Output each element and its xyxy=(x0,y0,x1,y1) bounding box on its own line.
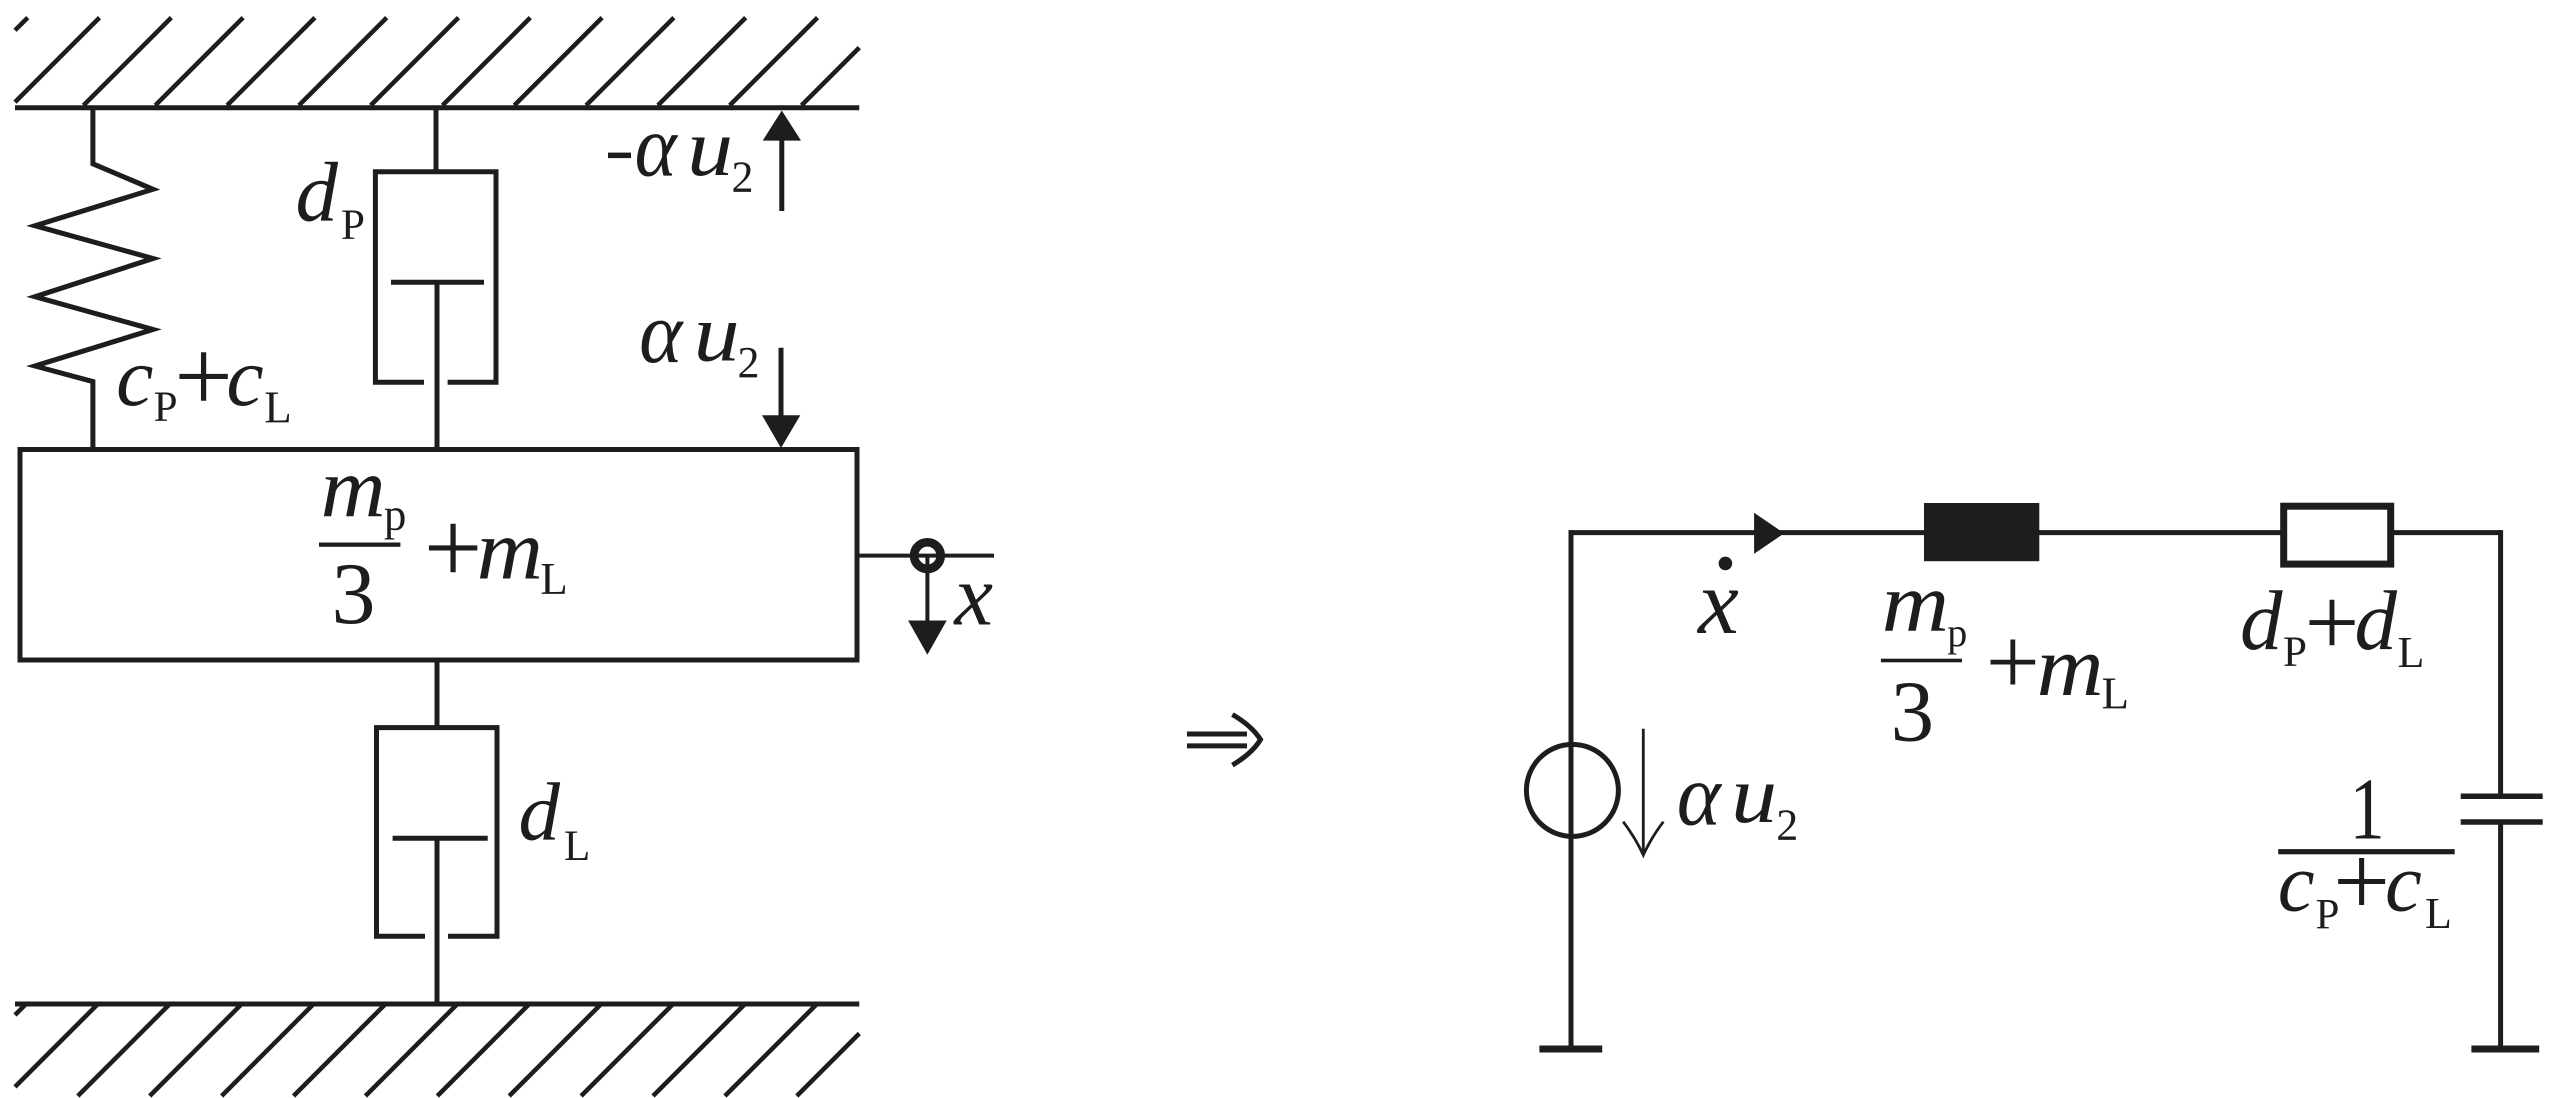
svg-text:u: u xyxy=(1731,749,1777,840)
svg-text:+: + xyxy=(2305,569,2360,676)
svg-text:d: d xyxy=(519,766,561,858)
label dL xyxy=(519,766,591,871)
label dP xyxy=(296,146,365,250)
capacitor 1/(cP+cL) xyxy=(2461,796,2543,822)
inductor mp/3+mL xyxy=(1924,503,2039,561)
svg-text:u: u xyxy=(694,287,740,378)
svg-text:x: x xyxy=(1696,551,1739,653)
svg-text:x: x xyxy=(952,547,993,644)
wire right vertical upper xyxy=(2498,530,2503,794)
svg-text:+: + xyxy=(424,491,483,606)
svg-text:L: L xyxy=(2102,668,2130,718)
svg-text:P: P xyxy=(2283,629,2307,676)
svg-text:m: m xyxy=(321,441,386,535)
wire top horizontal xyxy=(1569,530,2501,535)
resistor dP+dL xyxy=(2284,506,2391,564)
svg-text:2: 2 xyxy=(1776,801,1798,850)
floor wall xyxy=(15,1004,859,1096)
svg-text:3: 3 xyxy=(332,546,376,643)
label source alpha u2 xyxy=(1677,747,1799,849)
svg-text:+: + xyxy=(1986,608,2040,715)
damper dP xyxy=(375,108,496,451)
label cP+cL xyxy=(116,319,292,434)
wire left vertical xyxy=(1569,530,1574,1046)
svg-text:+: + xyxy=(174,319,233,434)
damper dL xyxy=(377,660,498,1004)
svg-text:c: c xyxy=(116,331,153,424)
svg-text:α: α xyxy=(639,285,684,382)
current arrow xdot xyxy=(1754,513,1784,554)
svg-text:c: c xyxy=(2278,837,2315,929)
label inductor mp/3+mL xyxy=(1881,557,2129,760)
svg-text:2: 2 xyxy=(738,338,760,387)
svg-text:m: m xyxy=(2037,618,2104,714)
svg-text:u: u xyxy=(687,102,733,193)
ceiling wall xyxy=(15,18,859,108)
source arrow alpha u2 xyxy=(1623,729,1663,855)
label mass mp/3+mL xyxy=(319,441,568,643)
svg-text:p: p xyxy=(1947,610,1967,655)
label alpha u2 xyxy=(639,285,759,387)
force arrow -alpha u2 (up) xyxy=(763,111,801,212)
source circle alpha u2 xyxy=(1526,744,1618,836)
svg-text:d: d xyxy=(2355,574,2398,668)
spring cP+cL xyxy=(35,108,153,451)
svg-text:L: L xyxy=(264,382,292,432)
label capacitor 1/(cP+cL) xyxy=(2278,762,2455,939)
wire right vertical lower xyxy=(2498,824,2503,1047)
svg-text:P: P xyxy=(341,202,365,249)
svg-text:m: m xyxy=(1882,557,1950,650)
svg-text:L: L xyxy=(2425,889,2452,938)
force arrow alpha u2 (down) xyxy=(762,348,800,448)
svg-text:c: c xyxy=(226,331,263,424)
label xdot xyxy=(1696,551,1739,653)
svg-text:L: L xyxy=(540,554,568,604)
svg-text:m: m xyxy=(477,502,543,598)
svg-text:L: L xyxy=(564,823,590,870)
svg-text:3: 3 xyxy=(1891,663,1935,760)
ground right xyxy=(2471,1046,2539,1053)
svg-text:L: L xyxy=(2398,628,2425,677)
svg-text:2: 2 xyxy=(732,152,754,201)
node x origin xyxy=(857,542,994,654)
label -alpha u2 xyxy=(608,98,754,201)
svg-text:c: c xyxy=(2385,837,2422,929)
svg-text:+: + xyxy=(2333,825,2390,937)
svg-text:d: d xyxy=(296,146,339,240)
svg-text:α: α xyxy=(635,98,679,195)
svg-text:p: p xyxy=(384,490,407,540)
mass block mp/3+mL xyxy=(20,450,857,661)
svg-text:α: α xyxy=(1677,747,1723,844)
label resistor dP+dL xyxy=(2240,569,2424,677)
ground left xyxy=(1539,1046,1602,1053)
implication arrow xyxy=(1187,715,1261,766)
svg-text:d: d xyxy=(2240,574,2283,668)
